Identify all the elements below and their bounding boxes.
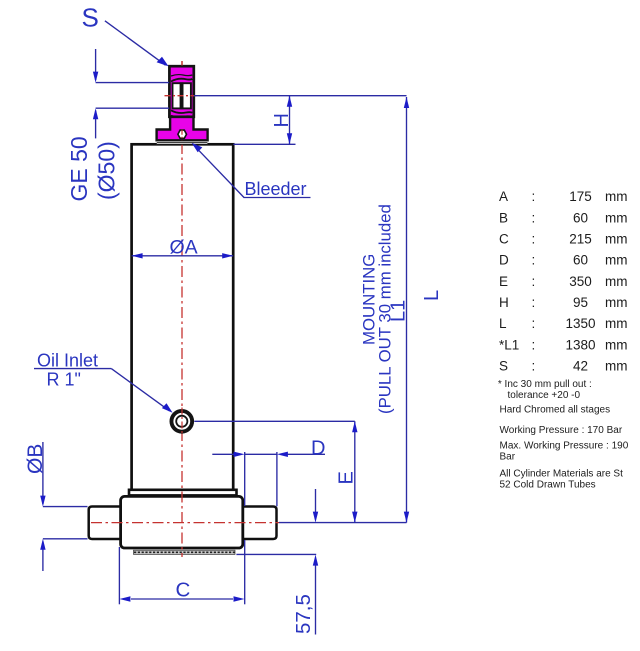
bearing inner ring bar [180,82,184,109]
svg-text:E: E [336,471,358,484]
top reference line [194,95,407,97]
svg-text:E: E [499,274,508,289]
svg-text:52 Cold Drawn Tubes: 52 Cold Drawn Tubes [500,480,596,491]
svg-text:Bar: Bar [500,452,516,463]
svg-text:D: D [311,438,325,460]
svg-text:57,5: 57,5 [292,594,315,634]
svg-text::: : [532,232,536,247]
svg-text:S: S [499,358,508,373]
svg-text:215: 215 [569,232,592,247]
svg-text:A: A [499,189,508,204]
svg-text:H: H [271,113,293,127]
collar bar at tube bottom [129,490,237,496]
svg-text:B: B [499,210,508,225]
svg-text:ØB: ØB [24,444,47,474]
svg-text:mm: mm [605,274,628,289]
E dim line [354,421,356,522]
H arrows [287,96,292,107]
bleeder hex nut [178,130,187,138]
vertical centerline [181,61,183,557]
OA arrows [132,253,143,258]
svg-text:175: 175 [569,189,592,204]
svg-text:mm: mm [605,210,628,225]
svg-text:Max. Working Pressure : 190: Max. Working Pressure : 190 [500,440,629,451]
GE50 arrows [93,72,98,83]
red dash across eye [165,95,200,97]
S arrowhead [157,57,169,67]
svg-text:mm: mm [605,316,628,331]
E horizontal from port [194,420,354,422]
centerline extension blue [279,522,407,524]
bearing bottom curves [171,110,192,113]
svg-text:R 1": R 1" [47,370,81,390]
oil leader [34,368,111,370]
cylinder main tube [132,144,234,492]
svg-text:1350: 1350 [565,316,595,331]
oil leader arrow [162,403,173,412]
eye body [169,66,193,117]
svg-text:(Ø50): (Ø50) [94,141,120,200]
svg-text:L: L [499,316,507,331]
svg-text:mm: mm [605,253,628,268]
S leader [105,21,166,65]
red tick through nut [181,130,183,141]
hatch strip under base [134,550,236,554]
C arrows [119,596,130,601]
bearing top curves [171,79,192,82]
svg-text:Oil Inlet: Oil Inlet [37,351,98,371]
svg-text:D: D [499,253,509,268]
H dim line [289,96,291,145]
57,5 arrows [313,512,318,523]
svg-text:1380: 1380 [565,337,595,352]
bleeder arrow [192,143,203,152]
svg-text::: : [532,337,536,352]
C dim [118,547,120,604]
svg-text::: : [532,358,536,373]
svg-text:* Inc 30 mm pull out :: * Inc 30 mm pull out : [498,379,592,390]
svg-text::: : [532,189,536,204]
svg-text:mm: mm [605,358,628,373]
svg-text:tolerance +20 -0: tolerance +20 -0 [508,390,581,401]
svg-text:Bleeder: Bleeder [245,179,307,199]
D arrows [234,452,245,457]
svg-text:350: 350 [569,274,592,289]
svg-text::: : [532,274,536,289]
bleeder leader [244,197,311,199]
svg-text::: : [532,316,536,331]
svg-text:mm: mm [605,232,628,247]
svg-text:60: 60 [573,253,588,268]
svg-text:C: C [499,232,509,247]
OA dim [132,255,234,257]
svg-text:L: L [421,290,443,301]
svg-text:60: 60 [573,210,588,225]
D dim [212,453,234,455]
trunnion pin left [89,507,121,540]
GE50 dim [95,49,97,80]
E arrows [352,421,357,432]
svg-text:GE 50: GE 50 [66,136,92,201]
L arrows [404,97,409,108]
57,5 dim [315,489,317,512]
svg-text:C: C [176,579,191,602]
base block [121,496,243,548]
eye stem [157,112,208,140]
svg-text:L1: L1 [388,300,410,322]
svg-text:mm: mm [605,337,628,352]
washer band under flange [157,141,208,145]
L dim line [406,97,408,523]
svg-text:mm: mm [605,189,628,204]
OB dim [42,442,44,504]
svg-text:95: 95 [573,295,588,310]
svg-text:H: H [499,295,509,310]
trunnion centerline [91,522,279,524]
svg-text:S: S [82,3,99,33]
OB arrows [40,496,45,507]
svg-text::: : [532,295,536,310]
red tick above eye [181,61,183,66]
trunnion pin right [243,507,277,540]
svg-text:Hard Chromed all stages: Hard Chromed all stages [500,405,611,416]
svg-text::: : [532,253,536,268]
svg-text::: : [532,210,536,225]
svg-text:mm: mm [605,295,628,310]
svg-text:All Cylinder Materials are St: All Cylinder Materials are St [500,469,624,480]
svg-text:*L1: *L1 [499,337,519,352]
bearing window [173,83,191,108]
svg-text:ØA: ØA [170,237,198,259]
svg-text:42: 42 [573,358,588,373]
svg-text:Working Pressure : 170 Bar: Working Pressure : 170 Bar [500,425,623,436]
